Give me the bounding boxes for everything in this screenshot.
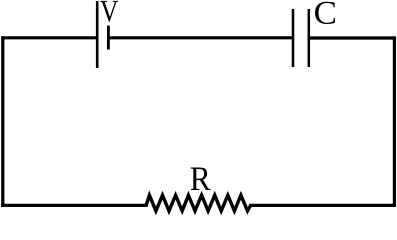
battery V: long plate (positive): [96, 1, 99, 68]
wire: top-right segment (corner to capacitor): [309, 36, 394, 39]
capacitor C: left plate: [292, 9, 295, 67]
label C: [315, 2, 335, 24]
label V: [100, 1, 118, 22]
wire: bottom-right segment (resistor to corner): [251, 204, 395, 207]
wire: bottom-left segment (corner to resistor): [3, 204, 146, 207]
battery V: short plate (negative): [107, 26, 110, 50]
resistor R zigzag: [146, 195, 251, 211]
wire: right vertical segment: [393, 38, 396, 205]
wire: top-left segment (battery to top-left corner): [3, 36, 97, 39]
capacitor C: right plate: [308, 9, 311, 67]
wire: battery to capacitor segment: [109, 36, 293, 39]
wire: left vertical segment: [1, 38, 4, 206]
label R: [191, 167, 211, 190]
